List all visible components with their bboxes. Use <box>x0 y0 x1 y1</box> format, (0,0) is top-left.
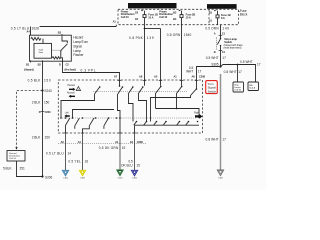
svg-text:14: 14 <box>68 151 72 155</box>
svg-text:Ground: Ground <box>9 152 17 155</box>
power bar HOT IN RUN <box>128 3 177 8</box>
off page arrow YEL <box>79 170 85 179</box>
svg-text:(Closed with brake: (Closed with brake <box>224 44 244 47</box>
upper wafer contact K6 <box>177 86 183 94</box>
destination box stop lamps <box>233 82 244 92</box>
wire PPL from flasher C2 <box>63 62 120 81</box>
hazard knob arrows <box>67 84 76 98</box>
svg-text:D: D <box>39 110 41 114</box>
wire stub terminal A7 <box>119 81 121 87</box>
red highlight turn signal switch <box>206 81 218 94</box>
dashed ground path <box>15 91 42 150</box>
wire 5 BLK ground run <box>3 161 43 177</box>
turn hazard switch dashed box <box>58 80 202 133</box>
svg-text:Switch: Switch <box>224 40 232 44</box>
fuse F2 STOP HAZ <box>173 10 195 25</box>
power bar HOT AT ALL TIMES <box>207 4 237 9</box>
svg-text:S206: S206 <box>45 176 53 180</box>
svg-text:Right: Right <box>194 111 200 114</box>
splice S243 <box>41 89 52 93</box>
fuse F3 STOP <box>209 10 231 25</box>
fuse F1 TURN-B/U <box>135 10 158 25</box>
svg-text:0.8 WHT: 0.8 WHT <box>206 137 219 141</box>
svg-text:17: 17 <box>222 137 226 141</box>
svg-text:Lamp: Lamp <box>73 49 81 53</box>
ground distribution box <box>7 151 25 162</box>
lower contact J6 with arm <box>186 121 190 126</box>
svg-text:19: 19 <box>122 146 126 150</box>
fuse block dashed box <box>118 9 238 24</box>
wire pivot 3 to lower contact <box>129 94 134 122</box>
wire pivot 1 to left contact <box>60 94 94 119</box>
connector C208 dotted line <box>58 143 146 145</box>
flasher module box <box>30 35 72 61</box>
svg-text:Cell 10: Cell 10 <box>159 15 167 19</box>
flasher bottom terminals <box>24 60 76 71</box>
wire pivot 6 to bus <box>176 94 178 109</box>
svg-text:Distribution: Distribution <box>9 154 21 157</box>
wire pivot 2 to A1 exit <box>118 94 121 133</box>
svg-text:Cell 36: Cell 36 <box>234 89 242 91</box>
upper wafer contact K4 <box>138 86 144 94</box>
wire WHT 17 left branch to A6 <box>186 66 220 81</box>
flasher lower resistor <box>52 57 61 59</box>
svg-text:HOT AT ALL TIMES: HOT AT ALL TIMES <box>209 5 236 9</box>
svg-text:0.8 ORN: 0.8 ORN <box>167 33 181 37</box>
svg-text:140: 140 <box>222 27 229 31</box>
svg-text:D: D <box>59 63 61 67</box>
wire YEL 16 <box>68 133 88 170</box>
svg-text:Signal: Signal <box>73 44 82 48</box>
off page arrow DK GRN <box>117 170 123 179</box>
svg-text:Cell 10: Cell 10 <box>121 15 129 19</box>
wire branch to A5 <box>145 29 161 81</box>
node contact P1 <box>65 117 67 119</box>
svg-text:WHT: WHT <box>186 69 193 73</box>
mech dotted line lower <box>62 117 197 119</box>
svg-text:Sub A: Sub A <box>249 87 255 90</box>
svg-text:MR: MR <box>249 85 253 87</box>
wire pivot 5 to bus <box>155 94 157 109</box>
flasher pivot drop to C2 <box>61 51 63 62</box>
svg-text:Cell 14: Cell 14 <box>9 158 17 160</box>
lower right bus 2 <box>135 125 200 133</box>
wire BLK 150 flasher ground <box>28 62 51 177</box>
svg-text:5 BLK: 5 BLK <box>3 166 12 170</box>
svg-text:HOT IN RUN, BULB TEST OR START: HOT IN RUN, BULB TEST OR START <box>129 4 175 8</box>
switch exit terminals <box>61 133 144 144</box>
svg-text:Lamp/Turn: Lamp/Turn <box>73 40 88 44</box>
switch arm W2 to A4 exit <box>83 118 95 133</box>
power distribution cell text 1 <box>121 10 135 19</box>
left indicator block <box>64 112 69 118</box>
switch entry terminals <box>139 75 205 79</box>
svg-text:Switch: Switch <box>208 90 217 94</box>
svg-text:15: 15 <box>136 163 140 167</box>
svg-text:Hazard: Hazard <box>67 84 75 87</box>
wire stub terminal A1 <box>181 81 183 86</box>
svg-text:0.5 WHT: 0.5 WHT <box>240 60 253 64</box>
svg-text:17: 17 <box>238 70 242 74</box>
svg-text:(Hot lead): (Hot lead) <box>65 67 76 71</box>
wire WHT 17 from stop switch <box>206 50 226 66</box>
node contact P4 <box>108 117 110 119</box>
lower contact J4 with arm <box>163 121 167 126</box>
tick terminal A8 <box>143 80 147 82</box>
svg-text:C208: C208 <box>199 75 206 79</box>
svg-text:17: 17 <box>257 63 261 67</box>
wire WHT 17 right branch <box>221 60 261 82</box>
svg-text:17: 17 <box>198 69 202 73</box>
upper wafer contact K3 <box>128 86 134 94</box>
svg-text:16: 16 <box>85 160 89 164</box>
wire pivot 4 to lower contact <box>139 94 147 122</box>
stop lamp switch SW1 <box>214 35 244 54</box>
lower contact J1 with arm <box>134 121 138 126</box>
node contact P2 <box>82 117 84 119</box>
wire DK BLU 15 <box>121 133 140 170</box>
svg-text:0.5 DK GRN: 0.5 DK GRN <box>99 146 119 150</box>
node contact P3 <box>95 117 97 119</box>
svg-text:15 A: 15 A <box>148 15 153 19</box>
svg-text:Hazard: Hazard <box>73 36 83 40</box>
wire A6 feed-through <box>151 96 191 122</box>
lower contact J3 with arm <box>154 121 158 126</box>
switch arm W1 foot <box>74 126 76 129</box>
svg-text:0.5 BLK: 0.5 BLK <box>28 78 42 82</box>
lower contact J5 with arm <box>177 121 181 126</box>
splice S305 <box>211 63 221 68</box>
destination box trailer <box>248 82 259 91</box>
svg-text:150: 150 <box>44 78 51 82</box>
svg-text:0.8 PNK: 0.8 PNK <box>129 36 144 40</box>
hazard warning triangle <box>76 87 80 91</box>
fuse block internal divider <box>208 9 210 24</box>
flasher switch arm <box>60 44 67 52</box>
wire ORN 1540 vertical <box>167 25 192 81</box>
mech dotted line upper <box>93 91 188 93</box>
wire ORN 140 to stop lamp switch <box>205 25 229 36</box>
tick terminal A7 <box>118 80 122 82</box>
svg-text:251: 251 <box>20 166 25 170</box>
splice S206 <box>41 175 52 179</box>
wire LT BLU 1628 horizontal <box>11 20 117 36</box>
svg-text:(Hazard): (Hazard) <box>24 67 34 71</box>
off page arrow LT BLU <box>62 170 68 179</box>
flasher terminal B3 top <box>58 30 62 36</box>
lower right bus 1 <box>156 108 200 119</box>
lower contact J7 <box>197 121 199 123</box>
wire labels 2 BLK 150 <box>32 100 51 139</box>
tick terminal A5 <box>159 80 163 82</box>
wire left stub bus <box>73 110 115 119</box>
svg-text:0.8 WHT: 0.8 WHT <box>224 70 237 74</box>
upper wafer contact K1 <box>95 86 101 94</box>
wire WHT 17 down branch label <box>224 70 242 74</box>
svg-text:B: B <box>214 50 216 54</box>
wire LT BLU 14 <box>46 133 71 170</box>
switch arm to A2 exit <box>65 118 69 133</box>
wire stub terminal A6 with contact <box>191 81 198 96</box>
svg-text:0.3 PPL: 0.3 PPL <box>81 69 96 73</box>
flasher label text <box>73 36 88 58</box>
tick terminal A6 <box>195 80 199 82</box>
off page arrow DK BLU <box>131 170 137 179</box>
upper wafer contact K5 <box>156 86 162 94</box>
wire stub terminal A5 <box>160 81 162 86</box>
svg-text:2 BLK: 2 BLK <box>32 135 41 139</box>
svg-text:C203: C203 <box>45 110 52 114</box>
off page arrow WHT <box>217 170 223 179</box>
right indicator block <box>194 111 202 118</box>
svg-text:DK BLU: DK BLU <box>121 163 133 167</box>
svg-text:S243: S243 <box>44 89 52 93</box>
wire WHT 17 long gray <box>206 74 227 170</box>
wire DK GRN 19 <box>99 133 126 170</box>
svg-text:150: 150 <box>45 135 50 139</box>
lower contact J2 with arm <box>144 121 148 126</box>
flasher dashed actuator <box>52 49 61 51</box>
svg-text:Normal: Normal <box>67 92 75 95</box>
svg-text:0.5 ORN: 0.5 ORN <box>205 27 219 31</box>
flasher resistor <box>31 37 41 40</box>
node contact P7 <box>116 117 118 119</box>
flasher internal wire to coil <box>42 39 44 44</box>
flasher inner module <box>34 43 52 58</box>
fuse block label <box>238 9 247 16</box>
wire stub terminal A8 <box>144 81 146 86</box>
svg-text:0.5 LT BLU: 0.5 LT BLU <box>46 151 65 155</box>
svg-text:Block: Block <box>240 12 248 16</box>
svg-text:1540: 1540 <box>184 33 192 37</box>
node contact P6 <box>72 117 74 119</box>
svg-text:0.5 WHT: 0.5 WHT <box>206 56 219 60</box>
switch arm W3 <box>104 118 109 129</box>
svg-text:15 A: 15 A <box>186 15 191 19</box>
svg-text:8 A: 8 A <box>221 16 225 20</box>
upper wafer contact K2 <box>118 86 123 94</box>
svg-text:2 BLK: 2 BLK <box>32 100 41 104</box>
svg-text:A: A <box>214 32 216 36</box>
flasher contact wire from B3 <box>62 36 67 43</box>
svg-text:Flasher: Flasher <box>73 53 84 57</box>
wire PNK 139 vertical <box>129 25 154 81</box>
svg-text:139: 139 <box>147 36 154 40</box>
svg-text:1628: 1628 <box>32 27 40 31</box>
tick terminal A1 <box>180 80 184 82</box>
node contact P5 <box>119 117 121 119</box>
svg-text:150: 150 <box>44 100 49 104</box>
switch arm W1 <box>75 118 80 126</box>
svg-text:17: 17 <box>222 56 226 60</box>
svg-text:Left: Left <box>65 112 69 115</box>
svg-text:0.5 YEL: 0.5 YEL <box>68 160 81 164</box>
power distribution cell text 2 <box>159 10 173 19</box>
svg-text:pedal depressed): pedal depressed) <box>224 47 242 50</box>
